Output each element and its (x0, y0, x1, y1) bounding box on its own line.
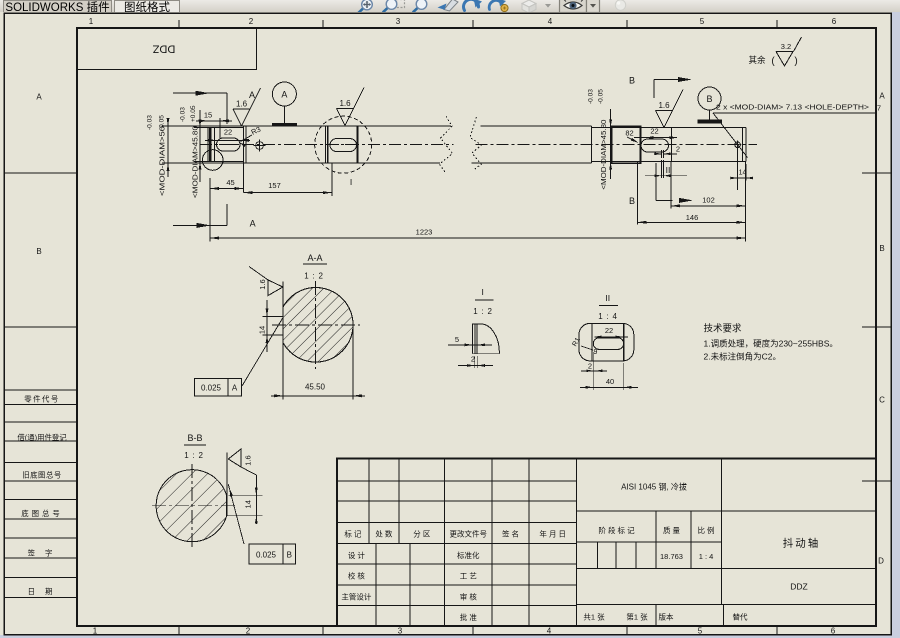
shaft right step (591, 126, 593, 163)
svg-text:A: A (879, 92, 885, 101)
feature control frame 0.025 A (195, 378, 242, 396)
svg-text:底图总号: 底图总号 (21, 509, 63, 518)
svg-text:146: 146 (686, 213, 699, 222)
svg-text:1.调质处理，硬度为230~255HBS。: 1.调质处理，硬度为230~255HBS。 (704, 339, 838, 349)
datum feature A balloon (272, 82, 296, 106)
svg-text:质 量: 质 量 (663, 525, 681, 535)
section B-B centerlines (152, 505, 236, 507)
keyway 3 slot (right) (641, 139, 669, 152)
svg-text:I: I (350, 177, 352, 187)
section B-B finish symbol (228, 449, 241, 467)
svg-text:AISI 1045 钢, 冷拔: AISI 1045 钢, 冷拔 (621, 482, 687, 492)
section B-B cut top (678, 77, 692, 82)
svg-text:B-B: B-B (187, 433, 202, 443)
svg-text:2: 2 (249, 17, 254, 26)
svg-text:C: C (879, 396, 885, 405)
svg-text:+0.05: +0.05 (190, 105, 197, 122)
svg-text:1 : 4: 1 : 4 (699, 552, 714, 561)
svg-text:比 例: 比 例 (697, 525, 714, 535)
shaft centerline (200, 144, 454, 146)
shaft right end face (745, 128, 747, 162)
left registration column (4, 389, 77, 391)
detail II outline (579, 323, 634, 361)
section A-A finish symbol (268, 280, 283, 296)
dimension dia 45.80 vertical (194, 127, 209, 129)
svg-text:审 核: 审 核 (460, 591, 478, 601)
svg-text:<MOD-DIAM>45.80: <MOD-DIAM>45.80 (599, 120, 608, 190)
svg-text:B: B (706, 94, 712, 104)
svg-text:替代: 替代 (733, 612, 748, 622)
surface finish 1.6 on detail I (337, 88, 365, 126)
svg-text:-0.03: -0.03 (588, 89, 595, 104)
svg-text:5: 5 (455, 335, 459, 344)
zone ticks bottom (178, 626, 180, 635)
svg-text:II: II (605, 293, 610, 303)
stage mark boxes (597, 542, 599, 569)
right journal vertical edge (671, 128, 673, 162)
svg-text:6: 6 (831, 627, 836, 636)
zone ticks top (178, 20, 180, 28)
svg-text:3: 3 (396, 17, 401, 26)
svg-text:14: 14 (739, 170, 747, 177)
svg-text:分 区: 分 区 (413, 530, 431, 539)
svg-text:共1 张: 共1 张 (583, 613, 605, 622)
svg-text:主管设计: 主管设计 (341, 591, 371, 601)
svg-text:102: 102 (702, 196, 715, 205)
svg-text:-0.05: -0.05 (598, 89, 605, 104)
svg-text:<MOD-DIAM>45.80: <MOD-DIAM>45.80 (191, 126, 200, 198)
svg-text:3: 3 (398, 627, 403, 636)
svg-text:7: 7 (877, 104, 881, 113)
svg-text:): ) (794, 56, 797, 67)
detail II boundary rectangle (612, 126, 641, 163)
svg-text:1223: 1223 (416, 228, 433, 237)
dimension 1 below right keyway (645, 175, 687, 177)
feature control frame 0.025 B (249, 544, 296, 564)
svg-text:6: 6 (832, 17, 837, 26)
svg-text:1 : 2: 1 : 2 (473, 307, 493, 316)
svg-text:处 数: 处 数 (375, 529, 393, 539)
svg-text:1: 1 (93, 627, 98, 636)
svg-text:A: A (250, 219, 256, 229)
svg-text:2: 2 (246, 627, 251, 636)
svg-text:零件代号: 零件代号 (24, 395, 60, 404)
svg-text:日 期: 日 期 (28, 587, 57, 596)
svg-text:D: D (878, 557, 884, 566)
svg-text:II: II (666, 165, 671, 175)
shaft left journal outline (208, 127, 244, 129)
zone dividers right (862, 172, 891, 174)
svg-text:批 准: 批 准 (460, 612, 478, 622)
svg-text:0.025: 0.025 (256, 551, 277, 560)
zone dividers left (4, 172, 77, 174)
svg-text:A: A (36, 93, 42, 102)
svg-text:5: 5 (698, 627, 703, 636)
dimension dia 45.80 right vertical (610, 109, 612, 179)
svg-text:工 艺: 工 艺 (460, 572, 477, 581)
svg-text:版本: 版本 (659, 612, 674, 622)
svg-text:-0.03: -0.03 (147, 115, 154, 130)
svg-text:借(通)用件登记: 借(通)用件登记 (17, 433, 67, 442)
svg-text:1.6: 1.6 (658, 101, 670, 110)
dimension dia 50 vertical (162, 125, 250, 127)
svg-text:1.6: 1.6 (236, 100, 248, 109)
svg-text:签 名: 签 名 (502, 529, 519, 539)
svg-text:22: 22 (605, 326, 613, 335)
svg-text:15: 15 (204, 111, 212, 120)
svg-text:1 : 2: 1 : 2 (184, 451, 204, 460)
svg-text:22: 22 (224, 128, 232, 137)
svg-text:2.未标注倒角为C2。: 2.未标注倒角为C2。 (704, 352, 781, 362)
section A-A centerlines (272, 324, 360, 326)
surface finish 1.6 on main body (233, 88, 261, 126)
svg-text:2 x <MOD-DIAM> 7.13 <HOLE-DEPT: 2 x <MOD-DIAM> 7.13 <HOLE-DEPTH> (716, 103, 870, 112)
svg-text:9: 9 (594, 349, 598, 356)
svg-text:14: 14 (258, 326, 267, 334)
svg-text:R1: R1 (571, 337, 582, 348)
title block outer (337, 458, 876, 626)
svg-text:4: 4 (547, 627, 552, 636)
svg-text:45: 45 (226, 178, 234, 187)
svg-text:更改文件号: 更改文件号 (450, 529, 488, 539)
section A-A cut bottom (197, 223, 211, 228)
hole callout balloon B (698, 87, 721, 110)
svg-text:157: 157 (268, 181, 281, 190)
svg-text:其余: 其余 (748, 55, 766, 65)
svg-text:I: I (482, 287, 484, 297)
detail I circle (315, 116, 372, 173)
svg-text:第1 张: 第1 张 (626, 612, 648, 622)
svg-text:DDZ: DDZ (790, 582, 807, 592)
svg-text:<MOD-DIAM>50: <MOD-DIAM>50 (158, 126, 167, 196)
svg-text:校 核: 校 核 (348, 571, 366, 581)
svg-text:3.2: 3.2 (781, 42, 791, 51)
svg-text:-0.03: -0.03 (180, 107, 187, 122)
svg-text:-0.05: -0.05 (158, 115, 165, 130)
detail I profile (473, 324, 500, 354)
svg-text:40: 40 (606, 377, 614, 386)
svg-text:14: 14 (244, 500, 253, 508)
shaft shoulder at 45 mm (243, 126, 245, 163)
datum target circle on centerline (256, 142, 264, 150)
keyway 1 slot (217, 138, 241, 151)
title block middle/right structure (576, 510, 876, 512)
svg-text:22: 22 (650, 127, 658, 136)
svg-text:4: 4 (548, 17, 553, 26)
svg-text:B: B (287, 551, 292, 560)
section B-B cut bottom (679, 198, 693, 203)
svg-text:B: B (36, 247, 41, 256)
svg-text:抖动轴: 抖动轴 (783, 537, 821, 550)
svg-text:B: B (629, 196, 635, 206)
svg-text:1.6: 1.6 (339, 99, 351, 108)
svg-text:设 计: 设 计 (348, 550, 366, 560)
svg-text:45.50: 45.50 (305, 383, 326, 392)
svg-text:1 : 4: 1 : 4 (598, 312, 618, 321)
svg-text:1.6: 1.6 (243, 455, 252, 465)
break line left (440, 116, 453, 172)
section A-A circle (283, 288, 353, 363)
svg-text:B: B (629, 76, 635, 86)
break line right (470, 117, 481, 170)
svg-text:5: 5 (700, 17, 705, 26)
svg-text:年 月 日: 年 月 日 (539, 529, 566, 539)
svg-text:1: 1 (89, 17, 94, 26)
svg-text:DDZ: DDZ (152, 43, 175, 55)
svg-text:标准化: 标准化 (457, 550, 480, 560)
shaft main body outline (244, 125, 452, 127)
cross hole at right end (735, 142, 741, 148)
svg-text:签 字: 签 字 (28, 549, 57, 558)
svg-text:1.6: 1.6 (258, 279, 267, 289)
svg-text:A: A (281, 90, 287, 100)
svg-text:A-A: A-A (307, 253, 322, 263)
surface finish 1.6 on right journal (656, 90, 684, 128)
svg-text:A: A (232, 384, 238, 393)
svg-text:82: 82 (625, 129, 633, 138)
svg-text:(: ( (771, 56, 775, 67)
section B-B circle (156, 470, 227, 542)
svg-text:1 : 2: 1 : 2 (304, 272, 324, 281)
svg-text:0.025: 0.025 (201, 384, 222, 393)
keyway 2 slot (detail I) (330, 139, 357, 152)
detail II keyway slot (593, 338, 623, 350)
title block verticals left part (368, 458, 370, 543)
detail circle at left end chamfer (202, 150, 223, 171)
svg-text:阶 段 标 记: 阶 段 标 记 (598, 525, 635, 535)
svg-text:B: B (879, 244, 884, 253)
shaft right journal outline (592, 127, 747, 129)
section B-B flat extension (226, 452, 228, 516)
svg-text:标 记: 标 记 (344, 529, 362, 539)
svg-text:A: A (249, 90, 255, 100)
svg-text:技术要求: 技术要求 (704, 323, 743, 335)
sheet format code box DDZ (rotated) (77, 28, 257, 70)
title block rows left part (337, 480, 576, 482)
section A-A cut top (195, 91, 209, 96)
svg-text:2: 2 (588, 362, 592, 371)
svg-text:18.763: 18.763 (660, 552, 683, 561)
svg-text:旧底图总号: 旧底图总号 (22, 471, 61, 480)
svg-text:2: 2 (676, 145, 680, 154)
